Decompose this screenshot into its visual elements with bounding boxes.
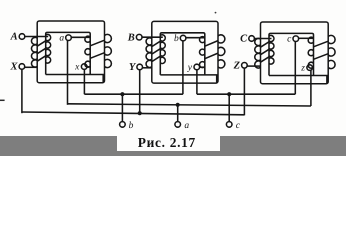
wire x to secondary winding bottom xyxy=(87,66,91,68)
node X (primary end terminal) xyxy=(19,64,25,70)
transformer T2 core window xyxy=(160,33,216,83)
node B (primary start terminal) xyxy=(136,34,142,40)
wire X to primary winding xyxy=(25,66,37,68)
svg-text:b: b xyxy=(129,121,134,131)
wire a tap down xyxy=(177,105,179,122)
transformer T1 secondary winding (limb right) xyxy=(85,34,112,67)
svg-text:A: A xyxy=(10,32,18,43)
svg-text:b: b xyxy=(174,34,179,44)
wire B to primary winding xyxy=(142,36,163,38)
wire y2 to c3 (delta link) xyxy=(197,93,295,95)
node a (secondary start terminal) xyxy=(66,35,72,41)
svg-text:c: c xyxy=(287,35,292,45)
wire b2 down xyxy=(182,41,184,94)
node b (secondary start terminal) xyxy=(180,35,186,41)
wire a1 to z3 (delta link) xyxy=(68,104,311,106)
junction Y-neutral xyxy=(138,111,142,115)
wire X down to neutral bus xyxy=(21,69,23,113)
svg-text:Y: Y xyxy=(129,62,137,73)
node c (secondary start terminal) xyxy=(293,36,299,42)
svg-text:c: c xyxy=(236,121,241,131)
svg-text:y: y xyxy=(187,63,193,73)
svg-text:Z: Z xyxy=(233,60,241,71)
wire neutral bus X-Y-Z xyxy=(22,112,245,115)
transformer T2 primary winding (limb left) xyxy=(146,35,165,68)
wire y to secondary winding bottom xyxy=(200,66,206,68)
wire x1 down xyxy=(83,69,85,94)
wire c to secondary winding top xyxy=(299,37,314,39)
junction terminal c tap xyxy=(227,92,231,96)
node x (secondary end terminal) xyxy=(81,64,87,70)
node A (primary start terminal) xyxy=(19,34,25,40)
transformer T1 core window xyxy=(46,32,103,82)
wire A to primary winding xyxy=(25,36,48,38)
wire b to secondary winding top xyxy=(186,37,205,39)
wire a1 down xyxy=(67,41,69,105)
transformer T1 primary winding (limb left) xyxy=(31,34,50,67)
wire C to primary winding xyxy=(254,38,271,40)
transformer T3 secondary winding (limb right) xyxy=(308,35,335,68)
scan artifact gray bar xyxy=(0,136,346,156)
svg-text:x: x xyxy=(74,63,80,73)
svg-text:C: C xyxy=(240,34,248,45)
junction terminal a tap xyxy=(176,103,180,107)
svg-text:a: a xyxy=(59,34,64,44)
node c (output terminal) xyxy=(226,122,232,128)
node z (secondary end terminal) xyxy=(307,65,313,71)
wire Y to primary winding xyxy=(143,67,152,69)
wire z3 down xyxy=(310,70,312,106)
node Y (primary end terminal) xyxy=(137,64,143,70)
transformer T1 core outline xyxy=(37,21,104,83)
transformer T3 core window xyxy=(269,33,327,83)
wire a to secondary winding top xyxy=(71,36,90,38)
svg-text:z: z xyxy=(300,64,305,74)
wire y2 down xyxy=(196,70,198,94)
wire b tap down xyxy=(121,94,123,121)
node C (primary start terminal) xyxy=(249,36,255,42)
svg-text:a: a xyxy=(184,121,189,131)
transformer T3 core outline xyxy=(261,22,329,84)
junction terminal b tap xyxy=(120,92,124,96)
wire z to secondary winding bottom xyxy=(313,67,315,69)
wire c tap down xyxy=(228,94,230,121)
wire Z to primary winding xyxy=(247,65,260,67)
wire x1 to b2 (delta link) xyxy=(84,93,182,95)
wire Z down to neutral bus xyxy=(243,68,245,115)
node a (output terminal) xyxy=(175,122,181,128)
transformer T2 core outline xyxy=(152,21,218,83)
scan speck xyxy=(215,12,217,14)
transformer T2 secondary winding (limb right) xyxy=(199,35,224,68)
node y (secondary end terminal) xyxy=(194,64,200,70)
svg-text:B: B xyxy=(127,32,135,43)
wire c3 down xyxy=(294,42,296,95)
wire Y down to neutral bus xyxy=(139,70,141,113)
transformer T3 primary winding (limb left) xyxy=(255,35,274,68)
caption box xyxy=(117,135,220,151)
svg-text:X: X xyxy=(9,62,18,73)
scan artifact dash left edge xyxy=(0,99,5,101)
node Z (primary end terminal) xyxy=(242,63,248,69)
node b (output terminal) xyxy=(120,122,126,128)
